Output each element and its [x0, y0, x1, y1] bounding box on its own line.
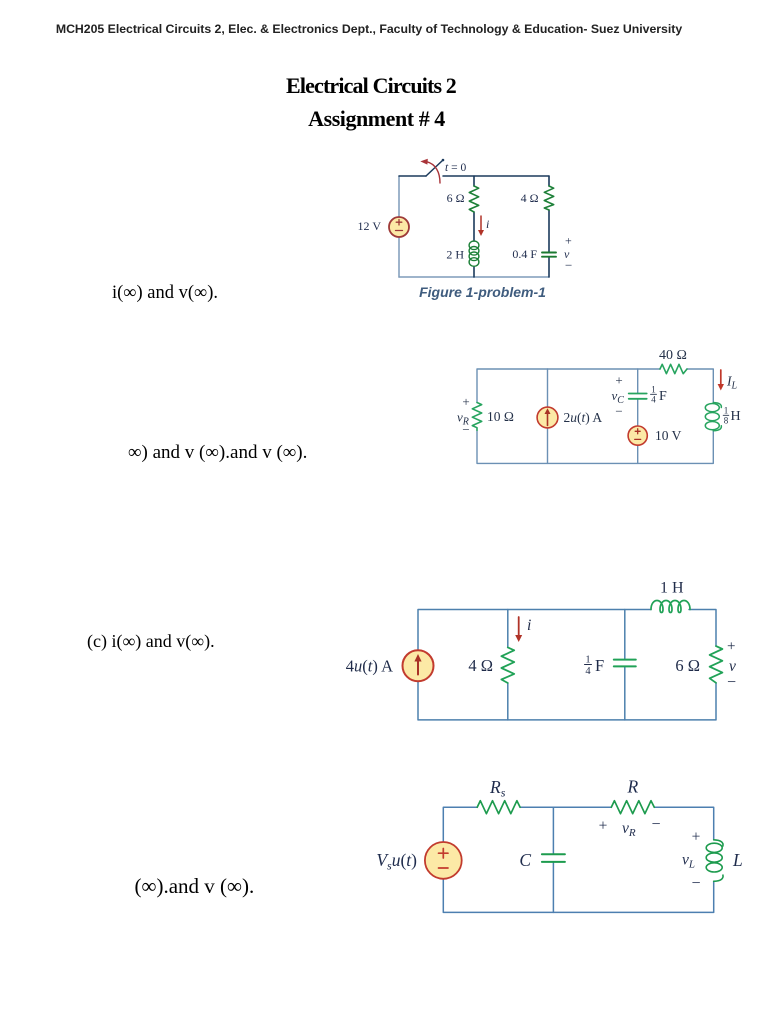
svg-text:F: F: [595, 656, 604, 675]
wire: C3 capacitor branch: [624, 610, 626, 720]
item (d) text: [135, 874, 255, 899]
label i: [486, 217, 489, 231]
wire: C2 capacitor/10V branch: [637, 369, 639, 463]
svg-text:1: 1: [585, 655, 590, 666]
svg-text:−: −: [651, 816, 660, 833]
svg-text:Vsu(t): Vsu(t): [376, 850, 417, 873]
title line 2: [308, 106, 445, 132]
label 10 ohm: [487, 409, 514, 424]
label + vL - for L: [682, 829, 701, 893]
label L: [732, 850, 743, 870]
svg-text:i: i: [527, 617, 531, 634]
svg-text:4u(t) A: 4u(t) A: [346, 657, 393, 676]
current arrow i: [478, 216, 484, 236]
label 1/4 F: [651, 385, 668, 405]
resistor R: [611, 801, 654, 814]
capacitor C: [542, 854, 565, 862]
svg-text:i: i: [486, 217, 489, 231]
svg-text:vR: vR: [622, 820, 636, 839]
resistor 6ohm: [469, 186, 478, 212]
label 4 ohm: [468, 656, 493, 675]
item (c) text: [87, 631, 215, 652]
svg-text:4 Ω: 4 Ω: [521, 191, 539, 205]
svg-text:40 Ω: 40 Ω: [659, 348, 687, 363]
svg-text:−: −: [462, 422, 469, 437]
svg-text:R: R: [626, 777, 638, 797]
label 4 ohm: [521, 191, 539, 205]
svg-text:1 H: 1 H: [660, 580, 684, 597]
svg-text:10 V: 10 V: [655, 428, 682, 443]
svg-text:Rs: Rs: [489, 777, 506, 800]
inductor 1/8 H: [705, 403, 721, 431]
current arrow i: [515, 617, 522, 642]
svg-text:2u(t) A: 2u(t) A: [564, 410, 603, 425]
svg-text:4: 4: [585, 666, 591, 677]
svg-text:IL: IL: [726, 374, 738, 392]
svg-text:12 V: 12 V: [358, 219, 382, 233]
svg-text:v: v: [729, 658, 736, 675]
svg-text:+: +: [462, 394, 469, 409]
item (b) text: [128, 442, 307, 464]
label + vR - below R: [599, 816, 661, 839]
inductor 1H: [651, 601, 690, 613]
svg-text:8: 8: [724, 416, 729, 426]
svg-text:C: C: [519, 850, 531, 870]
inductor L: [706, 840, 723, 882]
wire: C4 capacitor branch: [552, 807, 554, 912]
svg-text:4: 4: [651, 395, 656, 405]
svg-text:−: −: [565, 258, 572, 273]
svg-text:6 Ω: 6 Ω: [675, 656, 700, 675]
svg-text:6 Ω: 6 Ω: [447, 191, 465, 205]
wire: C3 4ohm branch: [507, 610, 509, 720]
svg-text:+: +: [727, 639, 735, 655]
svg-text:4 Ω: 4 Ω: [468, 656, 493, 675]
label 1/4 F: [585, 655, 605, 678]
label Rs: [489, 777, 506, 800]
figure 1 caption: [419, 284, 546, 300]
svg-text:t = 0: t = 0: [445, 162, 466, 174]
label i: [527, 617, 531, 634]
label 12 V: [358, 219, 382, 233]
svg-text:0.4 F: 0.4 F: [512, 247, 537, 261]
svg-text:−: −: [691, 875, 700, 892]
svg-text:H: H: [731, 409, 741, 424]
svg-text:F: F: [659, 389, 667, 404]
resistor 40ohm: [660, 364, 687, 373]
svg-text:L: L: [732, 850, 743, 870]
svg-text:1: 1: [651, 385, 656, 395]
svg-text:vL: vL: [682, 852, 695, 871]
label 10 V: [655, 428, 682, 443]
wire: C4 outer frame: [443, 807, 713, 912]
resistor Rs: [477, 801, 520, 814]
resistor 4ohm: [544, 186, 553, 210]
resistor 10ohm: [472, 403, 481, 431]
inductor 2H: [469, 241, 479, 266]
wire: C2 outer frame: [477, 369, 713, 463]
current source 4u(t) A: [403, 650, 434, 681]
wire: C1 top horizontal with switch gap: [399, 175, 549, 177]
label 1/8 H: [723, 406, 740, 426]
wire: C1 middle vertical branch: [473, 176, 475, 277]
wire: C3 outer frame: [418, 610, 716, 720]
label 2 H: [446, 248, 464, 262]
wire: C1 bottom horizontal: [399, 276, 549, 278]
voltage source 10V: [628, 426, 647, 445]
label + v - for capacitor: [564, 234, 572, 273]
label 0.4 F: [512, 247, 537, 261]
svg-text:10 Ω: 10 Ω: [487, 409, 514, 424]
capacitor 0.4F: [542, 253, 556, 257]
label 6 ohm: [447, 191, 465, 205]
label 40 ohm: [659, 348, 687, 363]
svg-text:+: +: [615, 373, 622, 388]
svg-text:+: +: [565, 234, 572, 248]
title line 1: [286, 73, 456, 99]
label 1 H: [660, 580, 684, 597]
wire: C2 current source branch: [547, 369, 549, 463]
label t = 0: [445, 162, 466, 174]
switch t=0: [420, 159, 444, 183]
current arrow IL: [718, 370, 724, 391]
voltage source Vs u(t): [425, 842, 462, 879]
svg-text:−: −: [727, 674, 736, 691]
svg-text:2 H: 2 H: [446, 248, 464, 262]
label 6 ohm: [675, 656, 700, 675]
svg-text:1: 1: [724, 406, 729, 416]
label vR plus minus: [457, 394, 470, 437]
label 2u(t) A: [564, 410, 603, 425]
label R: [626, 777, 638, 797]
label IL: [726, 374, 738, 392]
label C: [519, 850, 531, 870]
label + v - for 6ohm: [727, 639, 736, 692]
svg-text:+: +: [692, 829, 701, 846]
label Vs u(t): [376, 850, 417, 873]
resistor 4ohm: [501, 647, 514, 683]
capacitor 1/4 F: [614, 660, 636, 667]
svg-text:−: −: [615, 404, 622, 419]
wire: C1 right vertical branch: [548, 176, 550, 277]
label vC plus minus: [612, 373, 625, 419]
resistor 6ohm: [710, 646, 723, 683]
current source 2u(t) A: [537, 407, 558, 428]
header line: [56, 22, 682, 36]
item (a) text: [112, 283, 218, 304]
wire: C1 left vertical: [398, 176, 400, 277]
capacitor 1/4 F: [629, 394, 647, 399]
voltage source 12V: [389, 217, 409, 237]
label 4u(t) A: [346, 657, 393, 676]
svg-text:+: +: [599, 818, 608, 835]
